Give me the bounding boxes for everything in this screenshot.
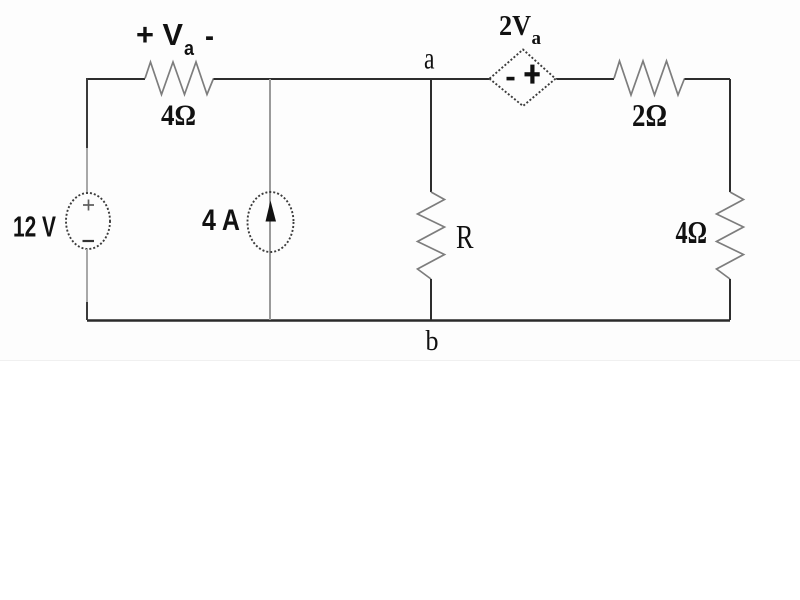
wire: left vertical dark upper <box>86 78 88 148</box>
svg-text:a: a <box>184 38 195 60</box>
svg-text:4 A: 4 A <box>202 204 240 237</box>
current source 4A circle <box>248 192 294 252</box>
svg-text:R: R <box>456 219 474 256</box>
svg-text:b: b <box>426 325 439 357</box>
wire: bottom rail <box>87 319 730 321</box>
resistor 4ohm right zigzag <box>717 192 744 279</box>
resistor R zigzag <box>418 192 445 279</box>
svg-text:+ V: + V <box>136 17 183 52</box>
svg-text:4Ω: 4Ω <box>161 99 196 132</box>
wire: node a branch vertical upper <box>430 79 432 192</box>
wire: node a branch vertical lower <box>430 279 432 320</box>
plus sign of 12V source <box>83 200 94 211</box>
wire: right vertical lower <box>729 279 731 320</box>
minus sign inside diamond <box>507 77 515 81</box>
resistor 2ohm zigzag <box>614 61 685 95</box>
scan background tint <box>0 0 800 360</box>
dependent source 2Va diamond <box>490 50 556 107</box>
plus sign inside diamond <box>525 72 540 76</box>
arrowhead of 4A source <box>266 201 277 222</box>
svg-text:2Ω: 2Ω <box>632 97 667 133</box>
svg-text:-: - <box>205 18 214 53</box>
wire: top rail left segment <box>87 78 145 80</box>
wire: 4A branch vertical gray <box>269 79 271 320</box>
wire: left vertical gray to source <box>86 148 88 194</box>
svg-text:2V: 2V <box>499 10 531 42</box>
wire: left vertical gray below source <box>86 249 88 302</box>
wire: diamond to 2ohm <box>557 78 615 80</box>
wire: 2ohm to top-right corner <box>685 78 731 80</box>
svg-text:12 V: 12 V <box>13 212 56 244</box>
voltage source 12V ellipse <box>66 193 110 249</box>
svg-text:4Ω: 4Ω <box>676 214 708 250</box>
resistor 4ohm top-left zigzag <box>145 62 214 95</box>
wire: top rail middle segment <box>214 78 490 80</box>
svg-text:a: a <box>532 28 542 49</box>
minus sign of 12V source <box>83 240 95 242</box>
wire: left vertical dark lower <box>86 302 88 320</box>
svg-text:a: a <box>424 41 435 76</box>
wire: right vertical upper <box>729 79 731 192</box>
